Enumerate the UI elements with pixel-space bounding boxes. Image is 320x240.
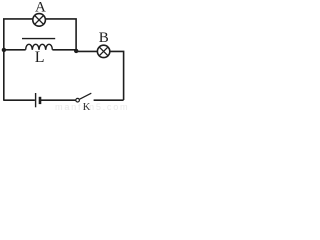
svg-text:A: A bbox=[35, 0, 46, 15]
svg-text:L: L bbox=[35, 49, 45, 66]
svg-text:B: B bbox=[99, 30, 109, 46]
svg-text:K: K bbox=[83, 102, 91, 113]
svg-text:manfen5.com: manfen5.com bbox=[55, 102, 128, 112]
